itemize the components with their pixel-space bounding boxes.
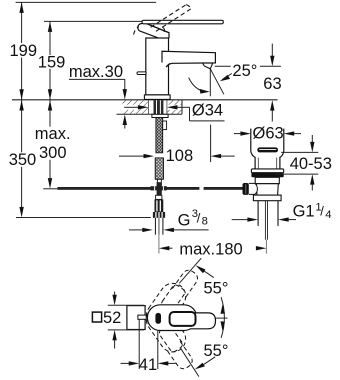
pop-up rod knob at rear [137, 72, 146, 75]
top view: lever recess [170, 312, 196, 326]
dimension 63 [270, 44, 274, 122]
faucet lever bar (rest position) [142, 20, 223, 24]
mounting washer under deck [152, 114, 168, 117]
leader line at spout outlet level [215, 65, 231, 67]
drain pop-up waste: rim tube (diameter 63) [251, 129, 284, 169]
G3/8 threaded nipple [155, 218, 163, 235]
svg-text:40-53: 40-53 [290, 155, 332, 173]
dimension 159 [48, 21, 52, 99]
svg-text:/: / [320, 204, 324, 219]
top view: swivel arc with arrows [221, 297, 225, 338]
G3/8 hex nut [153, 212, 165, 218]
top view: 55 degree axis line lower [181, 349, 199, 376]
svg-text:25°: 25° [232, 62, 257, 80]
label G3/8 with leader arrows [129, 228, 209, 232]
25 degree spray construction lines [189, 69, 232, 97]
top view: 55 degree leader lower [195, 357, 216, 370]
svg-text:max.180: max.180 [179, 241, 242, 259]
side fitting bump [163, 121, 167, 130]
top view: pivot slit [155, 313, 161, 324]
hose tail [157, 179, 161, 184]
svg-text:300: 300 [39, 144, 67, 162]
dimension diameter 63 [234, 131, 301, 135]
svg-text:max.30: max.30 [69, 63, 123, 81]
horizontal pop-up rod [57, 187, 243, 190]
svg-text:G: G [178, 212, 191, 230]
faucet body [146, 38, 169, 95]
svg-text:41: 41 [139, 356, 157, 374]
extension line top (199 upper datum) [16, 1, 157, 3]
faucet lever raised (dashed) [134, 5, 191, 35]
drain body [256, 184, 278, 195]
top view: handle capsule [147, 305, 196, 331]
drain flange (diameter 63) [251, 169, 283, 173]
drain plug cap [257, 147, 278, 152]
top view: handle axis extension line [216, 317, 228, 319]
drain centerline extension (max.180 right) [265, 240, 267, 254]
extension line 350 bottom [16, 217, 151, 219]
faucet spout [162, 51, 215, 67]
svg-text:108: 108 [166, 147, 194, 165]
svg-text:159: 159 [38, 53, 66, 71]
svg-text:max.: max. [35, 125, 71, 143]
svg-text:63: 63 [263, 75, 281, 93]
dimension 41 [121, 319, 176, 369]
drain locknut [253, 195, 281, 201]
top view: 55 degree leader upper [196, 265, 214, 277]
svg-text:G1: G1 [293, 203, 315, 221]
top view: handle stub [190, 313, 216, 329]
svg-text:199: 199 [10, 42, 38, 60]
extension line 159 datum [44, 20, 142, 22]
svg-text:Ø34: Ø34 [192, 101, 223, 119]
dimension 40-53 [275, 135, 318, 191]
drain rubber gasket [251, 173, 283, 178]
countertop surface line [12, 99, 278, 101]
drain tailpipe G1 1/4 [258, 201, 278, 240]
top view: square base 52 [127, 306, 145, 330]
dimension max.300 [48, 100, 52, 189]
svg-text:/: / [197, 211, 201, 226]
dimension 199 [19, 2, 23, 99]
svg-text:52: 52 [103, 309, 121, 327]
svg-text:55°: 55° [204, 342, 229, 360]
braided supply hose [155, 158, 163, 179]
threaded shank below washer [156, 118, 163, 153]
extension line max.300 bottom [43, 188, 57, 190]
threaded shank in hole [154, 100, 164, 114]
dimension square 52 [108, 292, 144, 349]
dimension max.30 [69, 79, 127, 128]
svg-text:350: 350 [9, 151, 37, 169]
dimension 108 [119, 125, 235, 163]
drain side port [249, 183, 258, 194]
drain rod knob [243, 183, 249, 195]
label square 52 [92, 309, 121, 327]
dimension 350 [19, 100, 23, 217]
faucet centerline extension (max.180 left) [158, 235, 160, 254]
rod cross fitting at faucet [150, 182, 166, 195]
svg-text:4: 4 [325, 209, 331, 221]
label G1 1/4 with leader arrows [232, 217, 296, 221]
top view: spout tab [138, 315, 146, 319]
top view: dashed handle rotated +55 (down) [141, 302, 201, 373]
top view: 55 degree axis line upper [179, 258, 201, 283]
rod end piece below fitting [156, 195, 162, 199]
svg-text:55°: 55° [204, 280, 229, 298]
drain clamp band [255, 177, 279, 183]
faucet handle hub [137, 23, 169, 38]
top view: dashed handle rotated -55 (up) [141, 263, 201, 334]
faucet base escutcheon [144, 95, 170, 100]
G3/8 connector block [155, 199, 164, 212]
svg-text:Ø63: Ø63 [253, 124, 284, 142]
countertop section band [117, 100, 183, 115]
aerator tip [203, 63, 213, 69]
dimension max.180 [159, 246, 267, 250]
svg-text:8: 8 [202, 215, 208, 227]
dimension diameter 34 (hole) [124, 105, 224, 121]
spout underside horn [166, 63, 169, 67]
